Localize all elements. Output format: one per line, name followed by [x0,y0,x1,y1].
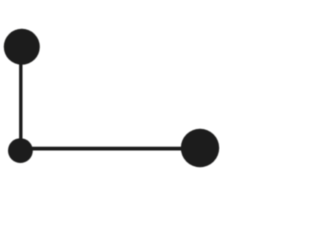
right lamp head disc [181,129,219,167]
corner joint small disc [8,138,33,163]
wall lamp product photo [0,0,220,201]
top lamp head disc [4,29,40,65]
horizontal arm rod [28,147,186,151]
vertical stem rod [19,60,22,144]
